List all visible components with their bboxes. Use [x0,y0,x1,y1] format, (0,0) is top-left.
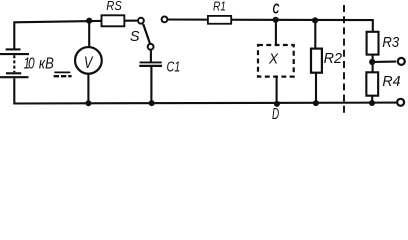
svg-text:S: S [130,29,140,45]
svg-text:X: X [268,51,278,68]
svg-text:D: D [272,105,279,123]
svg-text:R3: R3 [382,34,399,50]
svg-text:RS: RS [106,0,122,13]
svg-text:R2: R2 [324,51,342,67]
svg-text:C1: C1 [167,58,181,75]
svg-text:C: C [273,0,280,17]
svg-text:R4: R4 [382,74,400,90]
svg-text:кВ: кВ [39,55,54,72]
svg-text:R1: R1 [213,0,226,14]
